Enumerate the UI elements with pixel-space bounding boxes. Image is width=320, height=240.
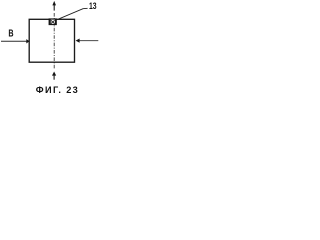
svg-text:В: В: [8, 29, 13, 40]
port box thick side walls: [50, 19, 56, 24]
right inflow arrow: [79, 40, 98, 42]
svg-text:13: 13: [89, 1, 97, 11]
port box hatching: [51, 20, 55, 23]
port box 13 (nozzle on top wall): [49, 19, 56, 25]
top arrow (flow out upward): [53, 5, 55, 11]
leader line to label 13: [57, 8, 88, 19]
svg-text:ФИГ. 23: ФИГ. 23: [36, 85, 78, 95]
left inflow arrow: [1, 40, 27, 42]
centerline (vertical dash-dot axis): [53, 13, 55, 70]
vessel outline (square chamber): [29, 19, 74, 62]
bottom arrow (flow in upward): [53, 75, 55, 80]
